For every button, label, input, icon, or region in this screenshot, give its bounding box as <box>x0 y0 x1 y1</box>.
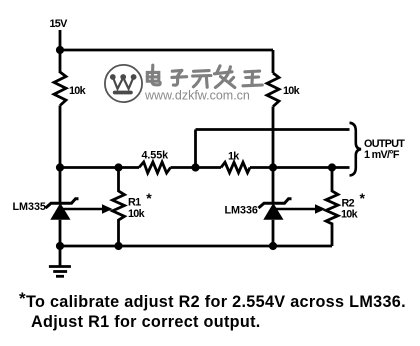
wire output upper <box>196 128 350 131</box>
node LM336 bottom junction <box>269 242 277 250</box>
svg-text:10k: 10k <box>341 209 359 221</box>
watermark W mark <box>110 74 137 94</box>
子 <box>172 69 182 73</box>
wire left rail mid <box>59 106 62 168</box>
svg-text:*: * <box>360 190 366 206</box>
svg-text:R2: R2 <box>342 197 355 209</box>
wire mid rail 3 <box>250 166 350 169</box>
resistor 4.55k <box>139 162 171 173</box>
watermark chinese text 电子开发王 <box>147 65 262 87</box>
node right rail mid junction <box>269 163 277 171</box>
svg-text:10k: 10k <box>283 85 301 97</box>
svg-text:1 mV/°F: 1 mV/°F <box>364 149 400 161</box>
wire wiper arrow LM336-R2 <box>275 204 326 213</box>
svg-text:10k: 10k <box>128 208 146 220</box>
node R2 top junction <box>328 163 336 171</box>
svg-text:15V: 15V <box>50 18 69 30</box>
node R1 bottom junction <box>114 242 122 250</box>
node bottom-left junction <box>56 242 64 250</box>
wire mid rail 2 <box>171 166 222 169</box>
svg-text:1k: 1k <box>228 151 240 163</box>
node output junction <box>191 163 199 171</box>
wire bottom rail <box>60 245 332 248</box>
发 <box>217 66 220 73</box>
watermark logo circle <box>105 65 142 102</box>
wire top rail <box>60 49 273 52</box>
svg-text:www.dzkfw.com.cn: www.dzkfw.com.cn <box>144 89 250 103</box>
wire mid rail <box>60 166 139 169</box>
node mid-left junction <box>56 163 64 171</box>
node R1 top junction <box>114 163 122 171</box>
电 <box>151 65 155 82</box>
svg-text:R1: R1 <box>128 197 141 209</box>
wire left rail upper <box>59 50 62 73</box>
svg-text:10k: 10k <box>69 85 87 97</box>
resistor 1k <box>221 162 250 172</box>
wire wiper arrow LM335-R1 <box>62 204 113 213</box>
potentiometer R1 <box>113 168 125 247</box>
svg-text:LM335: LM335 <box>13 201 46 213</box>
diode LM336 <box>259 168 292 247</box>
svg-text:OUTPUT: OUTPUT <box>364 138 405 150</box>
svg-text:4.55k: 4.55k <box>142 150 170 162</box>
node top-left junction <box>56 46 64 54</box>
ground <box>49 246 71 276</box>
wire output riser <box>194 130 197 168</box>
wire right rail mid <box>272 107 275 168</box>
svg-text:LM336: LM336 <box>225 205 258 217</box>
王 <box>245 70 260 74</box>
potentiometer R2 <box>326 168 338 247</box>
resistor right 10k <box>267 73 279 107</box>
diode LM335 <box>46 168 79 247</box>
resistor left 10k <box>54 72 66 106</box>
caption note <box>19 289 419 332</box>
svg-text:*: * <box>146 190 152 206</box>
wire right rail upper <box>272 50 275 73</box>
wire 15V stub <box>59 30 62 50</box>
brace output <box>350 123 362 176</box>
开 <box>194 69 210 73</box>
